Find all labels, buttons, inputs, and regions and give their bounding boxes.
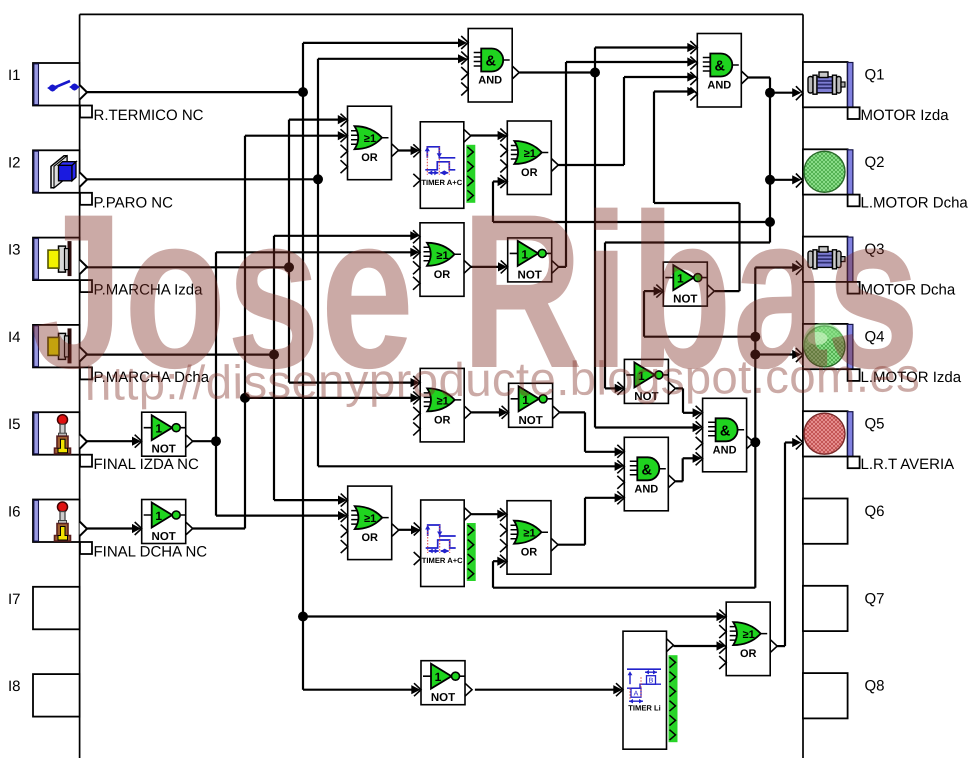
- output Q4 L.MOTOR Izda: [796, 323, 962, 386]
- svg-text:I5: I5: [8, 416, 21, 433]
- wire TIMER Li out to OR8.in3: [674, 641, 726, 650]
- input I8 (unused): [8, 674, 80, 717]
- wire net OR8 out to Q5: [777, 438, 801, 646]
- wire net NOT5 out: [193, 248, 420, 520]
- svg-text:TIMER A+C: TIMER A+C: [422, 556, 463, 565]
- wire I6 to NOT6: [87, 524, 141, 533]
- input I5 FINAL IZDA NC: [8, 412, 199, 473]
- svg-text:FINAL DCHA NC: FINAL DCHA NC: [94, 544, 208, 561]
- svg-text:Q8: Q8: [865, 678, 885, 695]
- wire NOT7 out to TIMER Li: [475, 685, 622, 694]
- wire NOT4 out to AND4.in1: [560, 412, 624, 456]
- output Q5 L.R.T AVERIA: [796, 411, 954, 473]
- OR gate B18: [500, 501, 558, 575]
- wire TIMER1 out to OR2: [471, 131, 507, 140]
- wire net NOT1 out to AND2.in2: [559, 57, 697, 267]
- NOT gate B9: [617, 359, 675, 403]
- svg-text:MOTOR Izda: MOTOR Izda: [861, 107, 950, 124]
- wire net I1 (R.TERMICO): [87, 38, 726, 694]
- wire net I3 (P.MARCHA Izda): [87, 115, 420, 387]
- NOT gate B20 (bottom): [414, 661, 472, 705]
- svg-text:I7: I7: [8, 591, 21, 608]
- output Q3 MOTOR Dcha: [796, 237, 956, 299]
- wire OR5 out to TIMER2: [398, 525, 420, 534]
- svg-text:TIMER Li: TIMER Li: [628, 704, 660, 713]
- svg-text:Q1: Q1: [865, 67, 885, 84]
- svg-text:Q6: Q6: [865, 503, 885, 520]
- NOT gate B7: [501, 238, 559, 282]
- input I7 (unused): [8, 587, 80, 630]
- svg-text:I1: I1: [8, 67, 21, 84]
- OR gate B15: [341, 486, 399, 559]
- wire TIMER2 out to OR6: [471, 510, 506, 519]
- wire OR4 out to NOT4: [471, 408, 508, 417]
- NOT gate B11: [502, 383, 560, 427]
- OR gate B10 (middle): [413, 368, 471, 442]
- svg-text:I8: I8: [8, 678, 21, 695]
- rack frame (left rail, right rail, top border): [80, 14, 803, 758]
- wire net I2 (P.PARO): [87, 54, 624, 471]
- timer B4 TIMER A+C (upper): [413, 122, 475, 209]
- AND gate B1 (top): [461, 29, 519, 103]
- NOT gate B8 (feedback): [656, 262, 714, 306]
- wire net AND2 out (MOTOR Izda): [493, 78, 801, 394]
- wire AND4 out to AND5.in4: [675, 454, 701, 482]
- wire net NOT2 out to AND2.in4: [654, 87, 740, 291]
- OR gate B5: [500, 121, 558, 195]
- svg-text:FINAL IZDA NC: FINAL IZDA NC: [94, 456, 199, 473]
- wire NOT3 out to AND5.in1: [676, 388, 702, 417]
- input I3 P.MARCHA Izda: [8, 238, 203, 299]
- AND gate B14: [617, 437, 675, 511]
- wire OR3 out to NOT1: [471, 262, 508, 271]
- AND gate B12 (motor dcha): [696, 398, 754, 472]
- wire net AND5 out (bus to Q3/Q4): [493, 263, 801, 588]
- wire net AND1 out: [520, 43, 702, 432]
- watermark URL dissenyproducte.blogspot.com.es: [85, 349, 921, 411]
- svg-text:I4: I4: [8, 329, 21, 346]
- output Q1 MOTOR Izda: [796, 62, 949, 124]
- NOT gate B13 (final izda): [135, 412, 193, 456]
- wire net I4 (P.MARCHA Dcha): [87, 231, 420, 505]
- input I4 P.MARCHA Dcha: [8, 325, 210, 386]
- wire OR6 out to AND4.in4: [558, 493, 624, 545]
- svg-text:Q7: Q7: [865, 590, 885, 607]
- timer B21 TIMER Li: [616, 631, 678, 749]
- svg-text:Q5: Q5: [865, 416, 885, 433]
- input I2 P.PARO NC: [8, 150, 173, 211]
- output Q2 L.MOTOR Dcha: [796, 149, 969, 211]
- AND gate B2 (motor izda): [690, 34, 748, 108]
- timer B17 TIMER A+C (lower): [414, 500, 476, 587]
- svg-text:R.TERMICO NC: R.TERMICO NC: [94, 107, 204, 124]
- svg-text:http://dissenyproducte.blogspo: http://dissenyproducte.blogspot.com.es: [85, 349, 921, 411]
- watermark Jose Ribas: [30, 168, 920, 414]
- NOT gate B16 (final dcha): [135, 500, 193, 544]
- OR gate B6: [413, 223, 471, 296]
- svg-text:I2: I2: [8, 154, 21, 171]
- svg-text:I3: I3: [8, 242, 21, 259]
- svg-text:I6: I6: [8, 504, 21, 521]
- output Q8 (unused): [803, 673, 885, 718]
- output Q6 (unused): [803, 499, 885, 544]
- wire net NOT6 out: [193, 131, 420, 528]
- wire net OR2 out to AND2.in3: [558, 72, 696, 165]
- input I1 R.TERMICO NC: [8, 63, 204, 124]
- svg-text:L.R.T AVERIA: L.R.T AVERIA: [861, 456, 955, 473]
- input I6 FINAL DCHA NC: [8, 500, 207, 561]
- OR gate B19 (averia): [719, 602, 777, 676]
- wire I5 to NOT5: [87, 437, 141, 446]
- wire OR1 out to TIMER1: [398, 146, 420, 155]
- output Q7 (unused): [803, 586, 885, 631]
- OR gate B3: [341, 106, 399, 180]
